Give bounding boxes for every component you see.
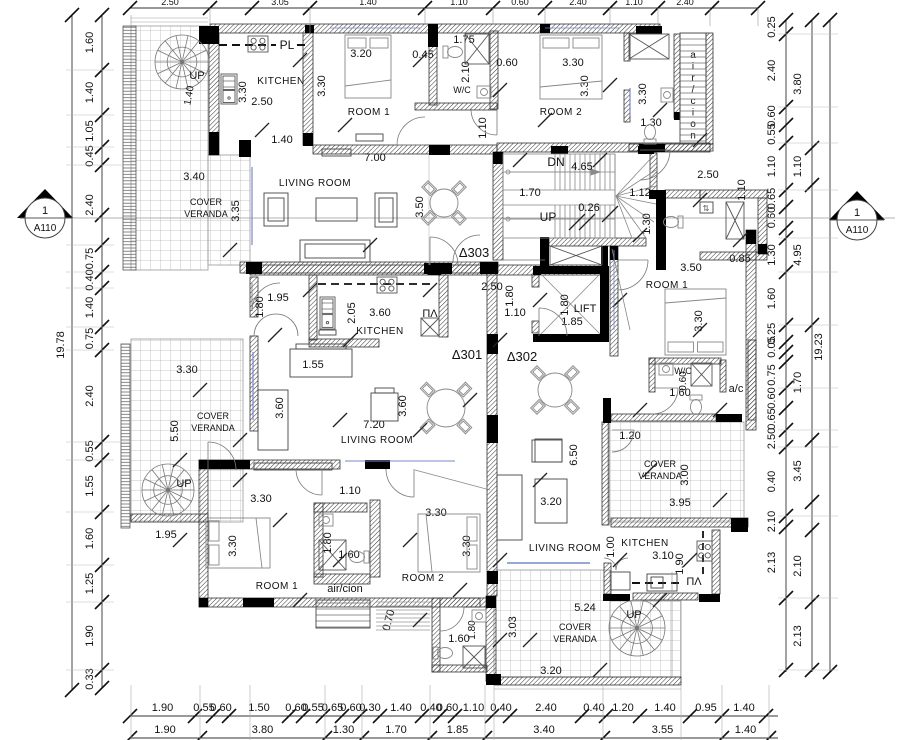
exterior wall top [210,24,660,33]
witness line left [66,669,114,671]
dim slash [413,613,427,627]
dim slash [713,403,727,417]
svg-text:3.45: 3.45 [792,460,804,481]
wall D302 ac right [748,340,756,420]
black wall block divider D302 living top [487,430,498,443]
svg-text:4.95: 4.95 [792,244,804,265]
black wall block top right [636,26,662,34]
wall D301 kitchen bottom [309,339,379,347]
wall D302 wc bottom / veranda top [611,414,716,421]
witness line bottom [680,685,682,740]
wall D301 bath right [370,500,380,577]
wall D302 kitchen right [712,530,720,594]
black wall block living bottom right [480,262,498,274]
dim slash [533,293,547,307]
svg-text:1.25: 1.25 [84,573,96,594]
svg-text:a/c: a/c [729,383,744,395]
svg-text:2.05: 2.05 [346,302,358,323]
svg-text:1: 1 [42,205,48,217]
wall D302 kitchen bottom [633,593,698,600]
left inner dimension chain [101,15,103,688]
svg-text:3.80: 3.80 [792,73,804,94]
dim slash [255,123,269,137]
wall D301 top / D303 bottom shared [250,265,605,275]
toilet bath bottom [433,647,453,659]
black wall block room1 bottom (D303) [429,145,450,155]
svg-text:0.60: 0.60 [210,702,231,714]
witness line left [66,459,114,461]
dim slash [693,323,707,337]
wall bottom veranda bottom [494,677,681,685]
svg-text:3.50: 3.50 [414,196,426,217]
wall W/C left (D303) [429,33,437,105]
svg-text:Δ301: Δ301 [452,347,482,362]
coffee table D303 living [316,198,357,221]
witness line right [778,669,838,671]
slash stair 2 [602,206,618,222]
svg-text:1.10: 1.10 [625,0,643,7]
svg-text:3.40: 3.40 [183,171,204,183]
spiral stair top-left [155,35,209,89]
dim slash [693,193,707,207]
dim slash [653,593,667,607]
svg-text:3.30: 3.30 [237,81,249,102]
svg-text:2.50: 2.50 [697,169,718,181]
svg-text:1: 1 [854,207,860,219]
wall lift doorway upper [532,275,539,287]
dim slash [223,243,237,257]
window line D301 living left [252,352,254,420]
wall D301 rooms left [199,460,208,607]
wall bottom veranda left [486,596,496,681]
counter D301 kitchen [319,330,336,335]
section line A-A [28,217,895,219]
wall stair left [493,152,503,260]
wall right protrusion bottom [700,252,767,260]
svg-text:0.40: 0.40 [583,702,604,714]
svg-text:5.50: 5.50 [169,420,181,441]
svg-text:3.30: 3.30 [637,83,649,104]
cover veranda bottom-center right part (grid) [610,601,681,677]
black wall block top center [428,24,438,47]
bed room1 D302 [665,289,726,355]
black wall block bath bottom [639,144,665,152]
witness line left [66,349,114,351]
witness line left [66,244,114,246]
veranda top-left inner edge lines [131,17,208,19]
witness line [544,8,546,24]
svg-text:3.30: 3.30 [316,75,328,96]
svg-text:0.33: 0.33 [84,668,96,689]
svg-text:1.90: 1.90 [154,724,175,736]
black lift wall left stub [533,266,541,275]
dim slash [363,238,377,252]
svg-text:2.13: 2.13 [792,625,804,646]
svg-text:0.60: 0.60 [511,0,529,7]
svg-text:A110: A110 [34,223,57,234]
black wall block stair top left [551,146,568,154]
central staircase treads [503,154,656,238]
svg-text:LIFT: LIFT [574,303,597,315]
svg-text:1.60: 1.60 [84,32,96,53]
svg-text:LIVING ROOM: LIVING ROOM [341,435,413,446]
dining table D303 [422,181,467,226]
dim slash [493,553,507,567]
wall stair hall top [497,143,710,152]
sofa D301 living [290,349,352,377]
witness line left [66,271,114,273]
dim slash [493,633,507,647]
dim slash [338,118,352,132]
stove D301 kitchen [377,277,397,293]
svg-text:1.75: 1.75 [453,34,474,46]
window line D301 living bottom [345,460,455,462]
wall D301 kitchen right [439,275,448,337]
svg-text:3.40: 3.40 [533,724,554,736]
svg-text:1.55: 1.55 [84,475,96,496]
svg-text:UP: UP [189,70,204,82]
wall D301/D302 divider lower [487,435,497,596]
wall mid-right veranda bottom [611,518,748,527]
steps below air shaft [376,601,430,603]
svg-text:0.55: 0.55 [302,702,323,714]
sink bath D303 [661,88,673,102]
dim slash [173,453,187,467]
svg-text:3.20: 3.20 [350,48,371,60]
double door D302 kitchen [604,558,628,570]
svg-text:3.20: 3.20 [540,665,561,677]
shower W/C D303 [465,34,489,64]
svg-text:3.60: 3.60 [274,397,286,418]
svg-text:2.40: 2.40 [84,385,96,406]
wall D301 room1 top [199,460,340,469]
witness line left [66,511,114,513]
svg-text:3.60: 3.60 [369,307,390,319]
svg-text:1.50: 1.50 [248,702,269,714]
wall D302 kitchen left [602,422,609,525]
toilet bath D303 [644,125,656,145]
svg-text:1.20: 1.20 [612,702,633,714]
svg-text:3.50: 3.50 [680,262,701,274]
witness line bottom [493,685,495,740]
wall air shaft left [674,34,680,118]
witness line left [66,564,114,566]
wall room2/bath divider (D303) lower [624,90,630,122]
witness line left [66,146,114,148]
wall D301 kitchen left upper [250,277,258,317]
black wall block living bottom left [246,262,262,274]
dim slash [733,233,747,247]
door room1 D301 [208,442,236,470]
wall D301 bath top [314,503,367,512]
svg-text:1.40: 1.40 [84,297,96,318]
right inner dimension chain [785,20,787,672]
svg-text:1.40: 1.40 [654,702,675,714]
dim slash [533,473,547,487]
wall W/C bottom (D303) [415,103,497,110]
scale box wc mid-right [700,202,713,213]
svg-text:1.10: 1.10 [766,156,778,177]
bed room1 D301 [206,518,270,568]
right section marker 1/A110 [829,191,885,220]
window room2/bath divider [629,88,631,116]
shower bath D303 [629,34,669,59]
svg-text:1.40: 1.40 [733,702,754,714]
svg-text:1.10: 1.10 [339,485,360,497]
window line D303 room2 top [545,27,620,29]
svg-text:UP: UP [626,609,641,621]
svg-text:0.65: 0.65 [766,188,778,209]
svg-text:KITCHEN: KITCHEN [356,326,403,337]
svg-text:0.26: 0.26 [578,202,599,214]
black wall block kitchen left lower [209,132,219,155]
svg-text:3.10: 3.10 [652,550,673,562]
svg-text:0.65: 0.65 [766,408,778,429]
svg-text:2.50: 2.50 [161,0,179,7]
witness line [709,8,711,26]
wall bottom bath left [432,598,440,672]
svg-text:19.78: 19.78 [55,331,67,359]
svg-text:⇅: ⇅ [703,204,710,213]
door bath D301 [296,469,322,495]
svg-text:3.20: 3.20 [540,496,561,508]
svg-text:1.20: 1.20 [619,430,640,442]
witness line [130,15,132,26]
window line D302 living [507,562,590,564]
dining table D302 [531,366,580,415]
svg-text:4.65: 4.65 [571,161,592,173]
black wall block top mid [540,24,550,33]
witness line [492,8,494,24]
svg-text:1.85: 1.85 [447,724,468,736]
witness line right [778,597,838,599]
wall W/C right (D303) [490,31,498,109]
black wall block D302 wc left [603,398,611,423]
air shaft D301 bottom [316,600,370,628]
veranda top-left west parapet (ladder) [123,26,136,270]
dim slash [463,393,477,407]
closet PL D301 [421,318,439,336]
black wall block mid-right veranda corner [731,518,748,532]
sofa D302 living [497,475,522,540]
dim slash [603,78,617,92]
wall under stair (lift top) [549,238,646,246]
svg-text:19.23: 19.23 [813,333,825,361]
sink wc D302 [659,363,673,375]
wall D302 right exterior [746,230,756,430]
dim slash [713,493,727,507]
svg-text:1.10: 1.10 [504,307,525,319]
svg-text:1.80: 1.80 [559,294,571,315]
wall D302 kitchen left lower [604,563,611,594]
svg-text:ROOM 1: ROOM 1 [348,107,390,118]
bed room2 D303 [540,35,602,99]
svg-text:5.24: 5.24 [574,602,595,614]
svg-text:3.80: 3.80 [252,724,273,736]
dim slash [593,663,607,677]
black lift wall bottom [533,334,609,342]
dim slash [173,533,187,547]
dim slash [493,83,507,97]
closet right protrusion [726,202,744,239]
black wall block veranda corner [239,140,251,157]
witness line right [778,33,838,35]
witness line [424,8,426,24]
black wall block living bottom mid [424,263,452,274]
dim slash [413,53,427,67]
witness line left long2 [114,441,131,443]
svg-text:1.55: 1.55 [302,359,323,371]
door lift hall [539,308,567,336]
witness line bottom [249,685,251,740]
shower wc D302 [691,363,712,386]
witness line left long1 [114,164,131,166]
stove D302 kitchen [697,541,712,561]
svg-text:1.80: 1.80 [254,296,266,317]
black wall block bottom veranda left top [486,596,496,608]
wall veranda/kitchen divider [209,33,219,155]
svg-text:1.30: 1.30 [333,724,354,736]
air shaft ladder top-right [680,33,706,144]
dim slash [333,413,347,427]
svg-text:3.30: 3.30 [579,75,591,96]
wall D301/D302 divider upper [487,265,497,435]
svg-text:3.95: 3.95 [669,497,690,509]
svg-text:2.10: 2.10 [766,511,778,532]
black wall block divider mid2 [487,415,498,431]
svg-text:COVER: COVER [559,622,592,632]
dim slash [593,153,607,167]
armchair D301 living [371,393,398,421]
counter D301 top [254,463,332,470]
svg-text:1.70: 1.70 [385,724,406,736]
armchair left D303 living [264,193,288,226]
svg-text:air/cion: air/cion [327,583,362,595]
wall living room Delta303 bottom [240,262,498,273]
dim slash [633,403,647,417]
wall D301 living left [250,336,258,431]
spiral stair bottom-center [609,600,665,656]
svg-text:KITCHEN: KITCHEN [257,76,304,87]
dim slash [233,473,247,487]
svg-text:1.30: 1.30 [640,117,661,129]
svg-text:1.10: 1.10 [792,156,804,177]
svg-text:ROOM 1: ROOM 1 [256,581,298,592]
witness line [757,8,759,26]
wall wc mid-right divider [650,153,657,191]
bottom dimension chain row1 [130,715,778,717]
svg-text:1.40: 1.40 [390,702,411,714]
svg-text:2.10: 2.10 [792,555,804,576]
black lift wall top [533,266,608,274]
shower bath bottom [463,646,485,668]
wall air shaft bottom [629,144,713,151]
svg-text:UP: UP [540,210,557,224]
door leaf line right of lift [612,249,630,330]
cabinet room1 D303 [356,134,383,141]
black wall block right protrusion [758,244,767,254]
toilet wc mid-right [664,216,684,228]
svg-text:ΠΛ: ΠΛ [686,576,702,588]
svg-text:1.05: 1.05 [84,120,96,141]
svg-text:UP: UP [176,478,191,490]
black wall block room divider top (D301) [365,460,390,469]
svg-text:7.00: 7.00 [364,152,385,164]
svg-text:KITCHEN: KITCHEN [621,538,668,549]
wall D302 wc top [649,358,721,364]
svg-text:PL: PL [280,38,295,52]
dim slash [513,153,527,167]
svg-text:DN: DN [547,155,564,169]
dim slash [333,553,347,567]
dim slash [293,53,307,67]
svg-text:1.00: 1.00 [605,536,617,557]
PL closet dashed line D302 [702,531,704,578]
dim slash [193,383,207,397]
svg-text:3.00: 3.00 [679,464,691,485]
tv console D303 living [322,149,351,156]
left section marker 1/A110 [17,189,73,218]
svg-text:1.40: 1.40 [84,82,96,103]
fridge D303 kitchen [221,74,237,104]
svg-text:2.40: 2.40 [569,0,587,7]
witness line bottom [324,685,326,740]
svg-text:Δ302: Δ302 [507,349,537,364]
svg-text:3.05: 3.05 [271,0,289,7]
svg-text:0.60: 0.60 [766,387,778,408]
black wall block D302 right top [746,230,756,244]
svg-text:0.55: 0.55 [766,123,778,144]
coffee table D301 [258,390,288,450]
wall mid-left veranda bottom [131,514,208,522]
svg-text:1.70: 1.70 [519,187,540,199]
door room1 D303 [397,117,425,145]
black wall block D302 kitchen corner [699,594,720,602]
black wall block D302 kitchen bottom-left [603,594,630,601]
svg-text:3.03: 3.03 [507,616,519,637]
sink W/C D303 [477,86,491,98]
dim slash [303,283,317,297]
black wall block bottom veranda corner [486,674,501,685]
svg-text:COVER: COVER [644,459,677,469]
svg-text:3.60: 3.60 [397,395,409,416]
shower bath D301 [319,540,346,570]
svg-text:COVER: COVER [190,197,223,207]
witness line bottom [130,685,132,740]
witness line bottom [768,685,770,740]
dim slash [523,633,537,647]
cover veranda mid-left (grid) [131,339,243,522]
svg-text:1.95: 1.95 [267,292,288,304]
svg-text:VERANDA: VERANDA [553,634,597,644]
svg-text:0.95: 0.95 [695,702,716,714]
bottom veranda inner edge [671,572,673,677]
svg-text:ROOM 2: ROOM 2 [402,573,444,584]
dim slash [683,553,697,567]
sink bath bottom [472,610,486,622]
black wall block rooms bottom (D301) [243,598,274,607]
svg-text:2.40: 2.40 [535,702,556,714]
svg-text:Δ303: Δ303 [459,245,489,260]
door wc D303 [471,109,497,135]
svg-text:0.05: 0.05 [766,336,778,357]
witness line right [778,142,838,144]
dining table D301 [420,382,472,434]
dim slash [343,333,357,347]
svg-text:3.30: 3.30 [562,57,583,69]
sink box D302 kitchen [611,572,630,590]
witness line right [778,324,838,326]
